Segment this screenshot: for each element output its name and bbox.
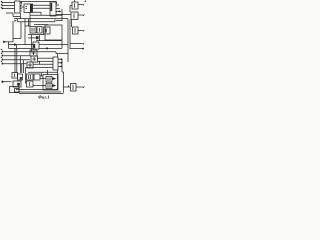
wire xyxy=(2,63,27,65)
wire xyxy=(21,64,23,73)
wire xyxy=(74,0,76,2)
wire xyxy=(33,12,42,15)
wire output stub xyxy=(58,62,62,64)
wire xyxy=(4,41,14,43)
wire xyxy=(39,61,41,64)
block FF5c xyxy=(27,81,34,87)
arrow xyxy=(15,20,17,22)
wire bottom line 1 xyxy=(16,89,58,91)
junction xyxy=(46,47,48,49)
block FF6 xyxy=(46,77,52,83)
wire vertical pair xyxy=(16,48,18,73)
wire xyxy=(30,14,62,16)
block R4 xyxy=(71,84,77,92)
register REG1 xyxy=(15,1,21,13)
block R2 mark xyxy=(73,13,75,18)
arrow input xyxy=(2,80,5,83)
wire vertical bus left xyxy=(12,21,14,42)
wire xyxy=(13,38,21,40)
block FF4 inner xyxy=(15,89,20,93)
register REG2 xyxy=(50,2,56,16)
wire output stub xyxy=(58,58,62,60)
wire xyxy=(36,40,62,42)
wire xyxy=(71,20,73,28)
node tick xyxy=(67,85,69,87)
wire xyxy=(39,35,41,41)
arrow xyxy=(83,43,85,45)
block G2 xyxy=(37,27,42,34)
junction xyxy=(61,14,63,16)
wire xyxy=(29,13,31,27)
wire top bus xyxy=(20,2,57,5)
node input 7 xyxy=(2,63,4,65)
wire xyxy=(56,14,71,16)
node input 3 tick xyxy=(1,7,3,8)
wire xyxy=(28,71,58,73)
block G3 xyxy=(33,42,39,49)
wire xyxy=(38,60,54,62)
arrow xyxy=(83,14,85,16)
node input 2 tick xyxy=(1,4,3,5)
arrow xyxy=(52,85,55,87)
wire xyxy=(25,68,27,84)
block R4 mark xyxy=(72,85,74,90)
node input 3 xyxy=(2,8,4,10)
wire vertical xyxy=(62,59,64,92)
wire xyxy=(2,2,15,4)
block FF6 marks xyxy=(48,78,50,82)
block BB big box xyxy=(45,25,62,40)
wire xyxy=(2,81,12,83)
node input 4 xyxy=(2,51,4,53)
block BB2 xyxy=(43,75,58,91)
node input 7 tick xyxy=(1,61,3,62)
block FF5c mark xyxy=(29,82,31,86)
wire xyxy=(28,34,44,36)
block FD2 xyxy=(44,27,51,34)
wire xyxy=(61,41,63,49)
wire output stub xyxy=(56,4,59,6)
wire xyxy=(6,13,20,17)
wire xyxy=(26,67,54,69)
wire xyxy=(2,52,68,54)
wire output xyxy=(78,30,83,32)
wire xyxy=(23,60,25,73)
node input 5 tick xyxy=(1,53,3,54)
arrow xyxy=(83,29,85,31)
block FF1 mark xyxy=(14,74,16,78)
wire right bus B xyxy=(69,20,71,50)
wire output stub xyxy=(56,7,60,9)
wire xyxy=(56,20,62,22)
junction xyxy=(58,11,60,13)
node input 1 xyxy=(2,2,4,4)
wire xyxy=(21,2,23,5)
wire xyxy=(8,42,10,49)
wire xyxy=(28,37,36,39)
block R1 mark xyxy=(74,3,76,8)
wire xyxy=(20,6,24,8)
wire xyxy=(33,63,53,65)
wire xyxy=(57,54,59,57)
wire xyxy=(20,13,22,19)
wire xyxy=(33,85,46,87)
node input 6 tick xyxy=(1,57,3,58)
wire output xyxy=(70,43,83,45)
node input 2 xyxy=(2,5,4,7)
node input 4 tick xyxy=(1,49,3,50)
junction xyxy=(14,44,16,46)
wire xyxy=(64,86,71,88)
block R3 mark xyxy=(74,28,76,33)
block R1 xyxy=(72,2,78,9)
wire xyxy=(20,56,22,73)
wire xyxy=(34,24,48,27)
wire vertical pair xyxy=(14,48,16,73)
block FF4 xyxy=(10,87,20,93)
wire output xyxy=(76,86,83,88)
block G1 marks xyxy=(32,28,34,32)
block R3 xyxy=(73,27,79,34)
wire xyxy=(70,6,72,13)
wire xyxy=(33,7,51,9)
wire xyxy=(61,9,63,21)
wire right bus A xyxy=(67,19,69,62)
junction xyxy=(82,48,84,50)
wire xyxy=(28,19,30,27)
block FF7 xyxy=(46,83,52,89)
block FF5a xyxy=(27,74,34,80)
node xyxy=(85,1,86,2)
wire bottom line 2 xyxy=(14,91,61,93)
wire xyxy=(16,45,18,49)
wire xyxy=(20,22,22,39)
junction xyxy=(60,58,62,60)
wire xyxy=(24,19,26,45)
wire xyxy=(40,78,46,80)
wire output stub xyxy=(56,10,61,12)
block FF5b xyxy=(34,74,40,80)
block G1 xyxy=(30,27,36,34)
arrow xyxy=(83,86,85,88)
block G2 mark xyxy=(38,28,40,32)
node input 6 xyxy=(2,59,4,61)
block FD1 xyxy=(24,4,33,13)
wire xyxy=(31,35,33,52)
block FF3 mark xyxy=(17,83,20,86)
wire xyxy=(2,59,30,61)
block FF5a marks xyxy=(29,75,31,79)
adder AD2 xyxy=(31,56,38,62)
wire xyxy=(41,72,43,76)
register REG3 xyxy=(53,57,58,70)
block FF2 mark xyxy=(20,77,22,79)
block R2 xyxy=(71,12,78,20)
wire xyxy=(33,4,51,6)
wire bottom line 3 xyxy=(19,92,64,94)
register REG2 inner bar xyxy=(51,3,53,11)
wire xyxy=(14,18,68,20)
arrow xyxy=(3,41,6,44)
register REG1 stubs xyxy=(20,3,22,12)
block FF2 xyxy=(18,74,23,80)
wire xyxy=(47,70,49,75)
wire xyxy=(2,55,30,57)
wire output xyxy=(70,48,83,50)
adder AD2 mark xyxy=(32,57,36,61)
adder AD1 xyxy=(30,50,37,56)
wire xyxy=(25,25,30,27)
block FD2 mark xyxy=(45,29,47,33)
node input 5 xyxy=(2,55,4,57)
wire xyxy=(57,70,59,90)
wire xyxy=(18,19,56,22)
adder AD3 xyxy=(27,62,33,68)
block FF7 marks xyxy=(48,84,50,88)
arrow xyxy=(83,3,85,5)
block FD1 dark bar xyxy=(30,4,33,12)
block G3 dark bar xyxy=(33,44,35,48)
adder AD3 mark xyxy=(28,63,32,67)
adder AD1 mark xyxy=(32,51,36,55)
junction xyxy=(60,62,62,64)
wire output stub xyxy=(58,65,62,67)
junction xyxy=(60,66,62,68)
block FF1 xyxy=(12,73,18,79)
wire xyxy=(9,44,69,46)
wire output xyxy=(78,4,83,6)
wire xyxy=(2,8,15,10)
block FF3 xyxy=(13,81,21,87)
svg-text:Фиг.1: Фиг.1 xyxy=(38,95,50,100)
arrow xyxy=(52,78,55,80)
node input 1 tick xyxy=(1,1,3,2)
wire xyxy=(9,47,63,49)
block tick T1 xyxy=(36,36,39,39)
wire output xyxy=(78,14,83,16)
block FD1 marks xyxy=(25,6,27,8)
wire xyxy=(37,57,53,59)
wire xyxy=(40,75,43,77)
wire xyxy=(2,5,15,7)
